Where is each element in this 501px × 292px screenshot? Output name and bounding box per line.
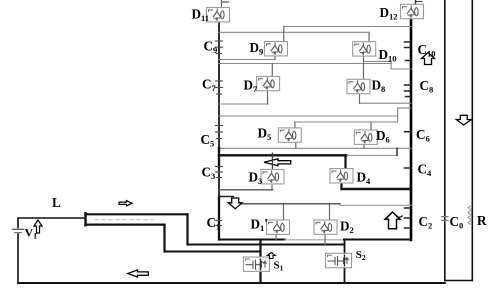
svg-text:L: L: [52, 195, 61, 210]
svg-text:D1': D1': [251, 216, 268, 233]
svg-text:R: R: [477, 213, 487, 228]
